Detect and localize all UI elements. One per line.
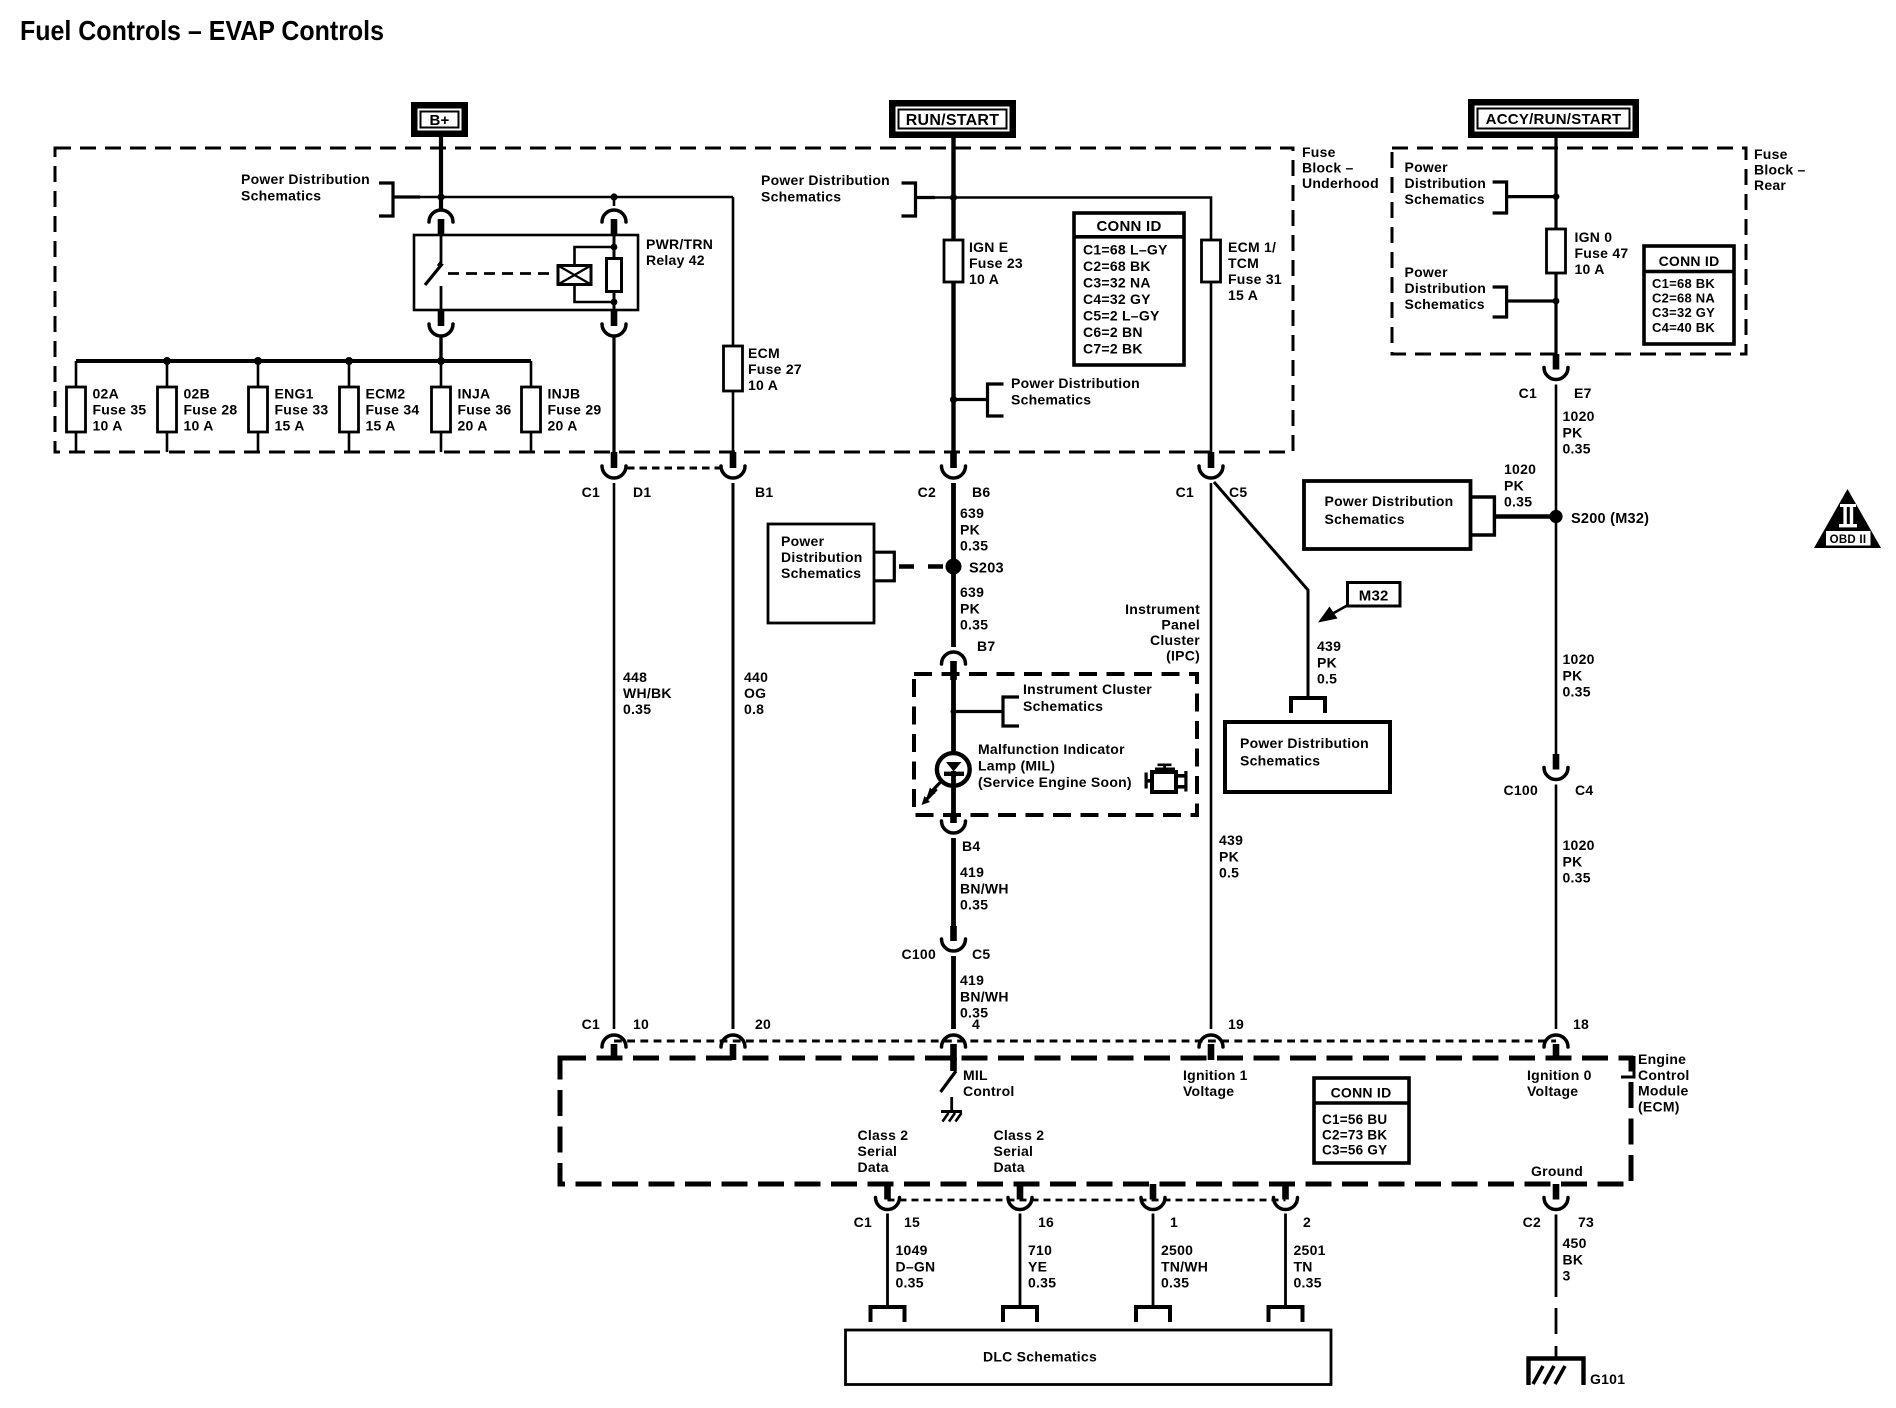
svg-text:1020: 1020	[1504, 461, 1536, 477]
wire 1020 PK (E7 to S200)	[1555, 385, 1558, 755]
fuse 02A Fuse 35	[75, 361, 78, 452]
svg-text:BN/WH: BN/WH	[960, 988, 1009, 1004]
svg-text:Class 2: Class 2	[858, 1127, 909, 1143]
instrument panel cluster dashed box	[914, 674, 1197, 815]
svg-text:440: 440	[744, 669, 768, 685]
svg-text:02B: 02B	[184, 386, 210, 402]
bracket rear lower	[1493, 287, 1507, 317]
svg-text:0.35: 0.35	[960, 617, 988, 633]
svg-text:2: 2	[1303, 1214, 1311, 1230]
connector C2/B6 at underhood box bottom	[950, 452, 957, 468]
svg-text:Data: Data	[994, 1159, 1025, 1175]
node junction at relay coil wire	[610, 193, 617, 200]
svg-text:PK: PK	[1563, 667, 1583, 683]
svg-text:450: 450	[1563, 1235, 1587, 1251]
svg-text:639: 639	[960, 584, 984, 600]
svg-text:IGN 0: IGN 0	[1575, 229, 1613, 245]
svg-text:B+: B+	[429, 112, 449, 129]
CONN ID table (ECM)	[1314, 1078, 1409, 1163]
svg-text:0.5: 0.5	[1219, 865, 1239, 881]
svg-text:TN: TN	[1294, 1258, 1313, 1274]
svg-text:C2=73 BK: C2=73 BK	[1322, 1127, 1387, 1142]
svg-text:Control: Control	[1638, 1067, 1690, 1083]
svg-text:WH/BK: WH/BK	[623, 685, 672, 701]
svg-text:0.35: 0.35	[1563, 870, 1591, 886]
svg-text:1020: 1020	[1563, 408, 1595, 424]
wire B+ horizontal bus y197	[393, 196, 733, 199]
node bus junction x=258	[254, 357, 262, 365]
svg-text:10 A: 10 A	[969, 271, 999, 287]
svg-text:Block –: Block –	[1302, 160, 1354, 176]
svg-text:ECM 1/: ECM 1/	[1228, 239, 1276, 255]
svg-text:0.5: 0.5	[1317, 671, 1337, 687]
wire ACCY/RUN/START feed	[1554, 138, 1557, 229]
svg-text:Malfunction Indicator: Malfunction Indicator	[978, 741, 1125, 757]
wire dotted link ECM bottom connectors	[888, 1199, 1286, 1202]
svg-text:C1: C1	[1176, 484, 1194, 500]
svg-text:B6: B6	[972, 484, 990, 500]
wire 1049 D–GN to DLC	[886, 1214, 889, 1307]
svg-text:D1: D1	[633, 484, 651, 500]
svg-text:OBD II: OBD II	[1830, 534, 1867, 546]
svg-text:2500: 2500	[1161, 1242, 1193, 1258]
svg-text:CONN ID: CONN ID	[1331, 1085, 1392, 1101]
relay switch contact	[438, 235, 441, 266]
wire dotted link D1-B1	[627, 467, 720, 470]
svg-text:RUN/START: RUN/START	[906, 112, 1000, 129]
svg-text:0.35: 0.35	[1028, 1275, 1056, 1291]
svg-text:10 A: 10 A	[93, 418, 123, 434]
svg-text:Fuse 28: Fuse 28	[184, 402, 238, 418]
wire 419 BN/WH upper	[951, 838, 956, 926]
splice node S203	[946, 559, 962, 575]
power tag ACCY/RUN/START	[1468, 99, 1639, 138]
svg-text:Serial: Serial	[858, 1143, 898, 1159]
svg-text:(IPC): (IPC)	[1166, 648, 1200, 664]
svg-text:PK: PK	[1504, 477, 1524, 493]
bracket power distribution schematics (lower)	[988, 384, 1004, 416]
svg-text:10 A: 10 A	[184, 418, 214, 434]
svg-text:Panel: Panel	[1161, 617, 1200, 633]
label M32 box	[1348, 583, 1401, 607]
svg-text:Power Distribution: Power Distribution	[1325, 493, 1454, 509]
svg-text:ECM2: ECM2	[366, 386, 406, 402]
svg-text:ENG1: ENG1	[275, 386, 314, 402]
node coil top junction	[611, 244, 618, 251]
relay armature dashed link	[448, 272, 554, 275]
svg-text:0.35: 0.35	[1563, 684, 1591, 700]
svg-text:15 A: 15 A	[275, 418, 305, 434]
svg-text:C1: C1	[582, 1016, 600, 1032]
fuse 02B Fuse 28	[166, 361, 169, 452]
box Power Distribution Schematics (M32 branch)	[1225, 722, 1390, 792]
svg-text:C1=56 BU: C1=56 BU	[1322, 1112, 1387, 1127]
svg-text:Power: Power	[1405, 264, 1449, 280]
svg-text:G101: G101	[1590, 1371, 1625, 1387]
node junction at y399	[950, 396, 957, 403]
svg-text:ACCY/RUN/START: ACCY/RUN/START	[1486, 111, 1622, 128]
svg-text:DLC Schematics: DLC Schematics	[983, 1349, 1097, 1365]
svg-text:Instrument: Instrument	[1125, 601, 1200, 617]
svg-text:419: 419	[960, 972, 984, 988]
svg-text:M32: M32	[1359, 588, 1389, 605]
svg-text:B4: B4	[962, 838, 980, 854]
svg-text:Module: Module	[1638, 1083, 1689, 1099]
svg-text:PK: PK	[1563, 424, 1583, 440]
svg-text:C6=2 BN: C6=2 BN	[1083, 324, 1143, 340]
svg-text:Fuse: Fuse	[1302, 144, 1336, 160]
bracket S200	[1471, 497, 1495, 535]
svg-text:Distribution: Distribution	[781, 549, 863, 565]
svg-text:C2=68 NA: C2=68 NA	[1652, 291, 1715, 306]
svg-text:Underhood: Underhood	[1302, 175, 1379, 191]
svg-text:0.35: 0.35	[623, 701, 651, 717]
svg-text:(ECM): (ECM)	[1638, 1098, 1680, 1114]
fuse ECM2 Fuse 34	[348, 361, 351, 452]
svg-text:C100: C100	[902, 946, 936, 962]
svg-text:19: 19	[1228, 1016, 1244, 1032]
svg-text:OG: OG	[744, 685, 766, 701]
svg-text:Engine: Engine	[1638, 1051, 1686, 1067]
wire dotted link ECM top connectors	[614, 1040, 1556, 1043]
svg-text:TCM: TCM	[1228, 255, 1259, 271]
svg-text:Block –: Block –	[1754, 162, 1806, 178]
svg-text:Schematics: Schematics	[781, 565, 861, 581]
box Power Distribution Schematics (S203)	[768, 524, 874, 623]
lamp MIL (malfunction indicator lamp)	[937, 753, 970, 786]
fuse IGN 0 Fuse 47	[1547, 229, 1566, 273]
arrow from M32 to wire	[1331, 605, 1348, 615]
connector C100/C4	[1553, 754, 1560, 770]
fuse INJB Fuse 29	[530, 361, 533, 452]
svg-text:CONN ID: CONN ID	[1659, 253, 1720, 269]
svg-text:10 A: 10 A	[748, 377, 778, 393]
fuse ECM Fuse 27	[724, 346, 743, 391]
svg-text:Schematics: Schematics	[241, 188, 321, 204]
svg-text:Lamp (MIL): Lamp (MIL)	[978, 758, 1055, 774]
svg-text:Ignition 0: Ignition 0	[1527, 1067, 1592, 1083]
svg-text:Schematics: Schematics	[1325, 511, 1405, 527]
svg-text:10: 10	[633, 1016, 649, 1032]
svg-text:Fuse 36: Fuse 36	[458, 402, 512, 418]
svg-text:C4: C4	[1575, 782, 1593, 798]
svg-text:439: 439	[1219, 832, 1243, 848]
svg-text:16: 16	[1038, 1214, 1054, 1230]
bracket ECM label	[1621, 1058, 1634, 1078]
svg-text:Power Distribution: Power Distribution	[761, 172, 890, 188]
svg-text:D–GN: D–GN	[896, 1258, 936, 1274]
connector C100/C5 (mid)	[950, 926, 957, 941]
bracket instrument cluster schematics	[1003, 697, 1019, 726]
svg-text:20 A: 20 A	[458, 418, 488, 434]
connector ECM pin 20	[721, 1035, 745, 1047]
wire 440 OG circuit	[732, 483, 735, 1029]
svg-text:0.35: 0.35	[1161, 1275, 1189, 1291]
svg-text:0.35: 0.35	[896, 1275, 924, 1291]
connector relay bottom right	[611, 310, 618, 326]
svg-text:INJB: INJB	[548, 386, 581, 402]
wire inside IPC	[951, 680, 956, 756]
wire coil parallel bottom	[575, 285, 615, 303]
svg-text:Control: Control	[963, 1083, 1015, 1099]
svg-text:20: 20	[755, 1016, 771, 1032]
svg-text:1020: 1020	[1563, 837, 1595, 853]
svg-text:PK: PK	[960, 600, 980, 616]
svg-text:Schematics: Schematics	[1240, 753, 1320, 769]
wire 639 PK upper	[951, 483, 956, 647]
wire 710 YE to DLC	[1019, 1214, 1022, 1307]
wire fuse feed bus	[76, 359, 531, 363]
fuse ENG1 Fuse 33	[257, 361, 260, 452]
wire relay to fuse bus	[439, 336, 442, 361]
svg-text:0.35: 0.35	[960, 897, 988, 913]
node junction at B+ wire	[437, 193, 444, 200]
svg-text:0.35: 0.35	[1504, 494, 1532, 510]
connector ECM pin 15 (bottom)	[884, 1184, 891, 1200]
switch MIL control driver	[950, 1058, 957, 1071]
connector C1/D1 at underhood box bottom	[611, 452, 618, 468]
svg-text:20 A: 20 A	[548, 418, 578, 434]
svg-text:Serial: Serial	[994, 1143, 1034, 1159]
svg-text:Power: Power	[781, 533, 825, 549]
terminal staple 1049	[871, 1307, 905, 1322]
terminal staple 2501	[1269, 1307, 1303, 1322]
svg-text:448: 448	[623, 669, 647, 685]
svg-text:Fuse 27: Fuse 27	[748, 361, 802, 377]
wire horizontal to ECM1/TCM fuse	[916, 198, 1212, 241]
svg-text:Power Distribution: Power Distribution	[241, 171, 370, 187]
connector C1/C5 at underhood box bottom	[1208, 452, 1215, 468]
svg-text:18: 18	[1573, 1016, 1589, 1032]
svg-text:Fuse: Fuse	[1754, 146, 1788, 162]
svg-text:1020: 1020	[1563, 651, 1595, 667]
connector C2/73 (ground)	[1553, 1184, 1560, 1200]
resistor in relay	[613, 235, 616, 259]
wire ECM1 fuse down to C5	[1210, 282, 1213, 452]
svg-text:0.35: 0.35	[1563, 441, 1591, 457]
svg-text:INJA: INJA	[458, 386, 491, 402]
wire relay coil down to connector D1	[612, 336, 615, 452]
svg-text:Schematics: Schematics	[1023, 698, 1103, 714]
connector C1/E7	[1553, 354, 1560, 370]
svg-text:ECM: ECM	[748, 345, 780, 361]
connector ECM pin 18	[1544, 1035, 1568, 1047]
connector relay bottom left	[438, 310, 445, 326]
svg-text:BN/WH: BN/WH	[960, 880, 1009, 896]
bracket rear upper	[1493, 182, 1507, 213]
svg-text:Fuel Controls – EVAP Controls: Fuel Controls – EVAP Controls	[20, 15, 384, 46]
svg-text:Relay 42: Relay 42	[646, 252, 705, 268]
svg-text:Schematics: Schematics	[1011, 392, 1091, 408]
svg-text:419: 419	[960, 864, 984, 880]
wire 450 BK 3	[1555, 1215, 1558, 1298]
svg-text:PK: PK	[1219, 848, 1239, 864]
svg-text:E7: E7	[1574, 385, 1592, 401]
svg-text:4: 4	[972, 1016, 980, 1032]
svg-text:PWR/TRN: PWR/TRN	[646, 236, 713, 252]
wire 439 PK branch diagonal	[1214, 482, 1308, 697]
svg-text:Rear: Rear	[1754, 177, 1786, 193]
svg-text:Fuse 33: Fuse 33	[275, 402, 329, 418]
connector ECM pin 19	[1199, 1035, 1223, 1047]
svg-text:C4=40 BK: C4=40 BK	[1652, 320, 1715, 335]
wire 2500 TN/WH to DLC	[1152, 1214, 1155, 1307]
svg-text:Fuse 47: Fuse 47	[1575, 245, 1629, 261]
svg-text:B1: B1	[755, 484, 773, 500]
CONN ID table (fuse block underhood)	[1074, 213, 1184, 365]
svg-text:Schematics: Schematics	[1405, 191, 1485, 207]
svg-text:C5: C5	[972, 946, 990, 962]
wire 2501 TN to DLC	[1284, 1214, 1287, 1307]
terminal staple into power distribution schematics	[1291, 698, 1325, 713]
connector B4	[950, 815, 957, 823]
svg-text:C3=56 GY: C3=56 GY	[1322, 1143, 1387, 1158]
node junction RUN/START wire	[950, 194, 957, 201]
svg-text:B7: B7	[977, 638, 995, 654]
svg-text:C1: C1	[582, 484, 600, 500]
node junction rear upper	[1553, 193, 1560, 200]
svg-text:639: 639	[960, 505, 984, 521]
svg-text:73: 73	[1578, 1214, 1594, 1230]
svg-text:C2: C2	[918, 484, 936, 500]
icon check engine	[1145, 764, 1188, 793]
terminal staple 710	[1003, 1307, 1037, 1322]
svg-text:Fuse 29: Fuse 29	[548, 402, 602, 418]
svg-text:C3=32 NA: C3=32 NA	[1083, 275, 1151, 291]
node coil bottom junction	[611, 299, 618, 306]
svg-text:Ignition 1: Ignition 1	[1183, 1067, 1248, 1083]
svg-text:PK: PK	[960, 521, 980, 537]
svg-text:Fuse 23: Fuse 23	[969, 255, 1023, 271]
svg-text:Instrument Cluster: Instrument Cluster	[1023, 681, 1152, 697]
svg-text:C2: C2	[1523, 1214, 1541, 1230]
connector ECM pin 4	[942, 1035, 966, 1047]
svg-text:(Service Engine Soon): (Service Engine Soon)	[978, 774, 1132, 790]
svg-text:C1: C1	[854, 1214, 872, 1230]
splice node S200 (M32)	[1549, 510, 1562, 523]
svg-text:Schematics: Schematics	[761, 189, 841, 205]
svg-text:Fuse 31: Fuse 31	[1228, 271, 1282, 287]
fuse IGN E Fuse 23	[944, 240, 963, 282]
connector relay pin 30 (top left)	[429, 210, 453, 222]
ground G101	[1529, 1359, 1584, 1386]
svg-text:C100: C100	[1504, 782, 1538, 798]
svg-text:710: 710	[1028, 1242, 1052, 1258]
svg-text:15 A: 15 A	[366, 418, 396, 434]
wire IGN0 fuse down	[1554, 273, 1557, 354]
node bus junction x=349	[345, 357, 353, 365]
wire 1020 PK (C4 to ECM)	[1555, 785, 1558, 1030]
wire IGN E fuse down to B6	[951, 282, 955, 452]
svg-text:C5=2 L–GY: C5=2 L–GY	[1083, 308, 1160, 324]
svg-text:Cluster: Cluster	[1150, 632, 1200, 648]
svg-text:C5: C5	[1229, 484, 1247, 500]
lamp light rays arrows	[933, 781, 943, 791]
svg-text:10 A: 10 A	[1575, 261, 1605, 277]
fuse INJA Fuse 36	[440, 361, 443, 452]
wire coil parallel top	[575, 247, 615, 266]
wire 439 PK straight (ignition 1 voltage)	[1210, 483, 1213, 1029]
svg-text:02A: 02A	[93, 386, 119, 402]
node junction rear lower	[1553, 298, 1560, 305]
svg-text:Power Distribution: Power Distribution	[1240, 735, 1369, 751]
svg-text:TN/WH: TN/WH	[1161, 1258, 1208, 1274]
engine control module dashed box	[560, 1058, 1631, 1184]
fuse block underhood dashed box	[55, 148, 1293, 452]
svg-text:439: 439	[1317, 638, 1341, 654]
svg-text:Power Distribution: Power Distribution	[1011, 375, 1140, 391]
svg-text:Fuse 34: Fuse 34	[366, 402, 420, 418]
svg-text:Ground: Ground	[1531, 1163, 1583, 1179]
power tag B+	[411, 102, 468, 137]
bracket power distribution schematics (RUN/START)	[902, 183, 916, 216]
svg-text:Schematics: Schematics	[1405, 296, 1485, 312]
svg-text:1: 1	[1170, 1214, 1178, 1230]
svg-text:Distribution: Distribution	[1405, 175, 1487, 191]
connector B1 at underhood box bottom	[730, 452, 737, 468]
svg-text:C1=68 L–GY: C1=68 L–GY	[1083, 242, 1168, 258]
svg-text:Power: Power	[1405, 159, 1449, 175]
fuse ECM 1/TCM Fuse 31	[1202, 240, 1221, 282]
svg-text:Voltage: Voltage	[1527, 1083, 1578, 1099]
power tag RUN/START	[889, 100, 1016, 138]
bracket to power distribution schematics (B+)	[379, 183, 393, 216]
svg-text:0.8: 0.8	[744, 701, 764, 717]
svg-text:1049: 1049	[896, 1242, 928, 1258]
relay PWR/TRN Relay 42 box	[414, 235, 638, 310]
svg-text:15: 15	[904, 1214, 920, 1230]
svg-text:2501: 2501	[1294, 1242, 1326, 1258]
wire 419 BN/WH lower	[951, 956, 956, 1029]
connector ECM pin 16 (bottom)	[1017, 1184, 1024, 1200]
svg-text:Fuse 35: Fuse 35	[93, 402, 147, 418]
svg-text:C2=68 BK: C2=68 BK	[1083, 258, 1151, 274]
svg-text:BK: BK	[1563, 1251, 1584, 1267]
svg-text:S203: S203	[969, 561, 1004, 577]
svg-text:0.35: 0.35	[1294, 1275, 1322, 1291]
svg-text:PK: PK	[1317, 654, 1337, 670]
svg-text:MIL: MIL	[963, 1067, 988, 1083]
svg-text:C4=32 GY: C4=32 GY	[1083, 291, 1151, 307]
svg-text:Data: Data	[858, 1159, 889, 1175]
svg-text:C7=2 BK: C7=2 BK	[1083, 341, 1143, 357]
box DLC Schematics	[846, 1330, 1332, 1385]
symbol OBD II triangle	[1814, 489, 1881, 548]
svg-text:C3=32 GY: C3=32 GY	[1652, 305, 1715, 320]
svg-text:CONN ID: CONN ID	[1096, 218, 1161, 235]
relay coil (crossed box)	[558, 266, 591, 285]
connector ECM pin 1 (bottom)	[1150, 1184, 1157, 1200]
wire down to ECM fuse 27	[732, 197, 735, 346]
wire RUN/START feed	[951, 138, 955, 240]
connector relay pin 86 (top right)	[613, 197, 616, 206]
svg-text:0.35: 0.35	[960, 538, 988, 554]
wire B+ vertical feed	[439, 137, 443, 210]
wire 448 WH/BK circuit	[613, 483, 616, 1029]
svg-text:C1: C1	[1519, 385, 1537, 401]
connector ECM pin 10	[602, 1035, 626, 1047]
node bus junction x=441	[437, 357, 445, 365]
ground symbol (MIL driver)	[941, 1110, 962, 1113]
svg-text:Distribution: Distribution	[1405, 280, 1487, 296]
terminal staple 2500	[1136, 1307, 1170, 1322]
svg-text:Class 2: Class 2	[994, 1127, 1045, 1143]
bracket S203 to power distribution schematics	[874, 552, 894, 581]
svg-text:YE: YE	[1028, 1258, 1047, 1274]
connector ECM pin 2 (bottom)	[1282, 1184, 1289, 1200]
svg-text:IGN E: IGN E	[969, 239, 1008, 255]
svg-text:3: 3	[1563, 1268, 1571, 1284]
